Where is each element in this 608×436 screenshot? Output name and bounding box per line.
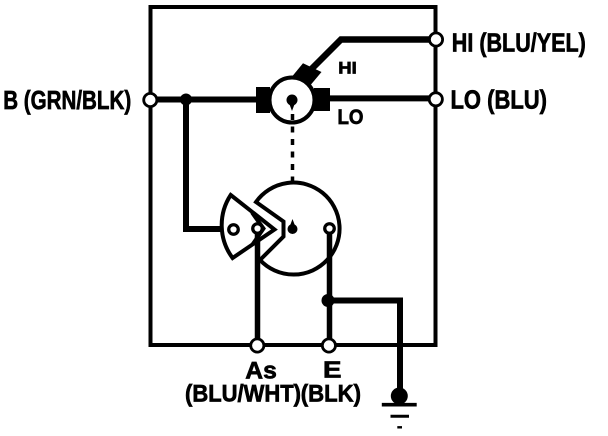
wiper arm wedge	[222, 195, 275, 258]
terminal As	[251, 339, 264, 352]
dashed shaft link line	[291, 114, 295, 222]
motor M1 body	[270, 78, 315, 123]
park switch plate (pac-man circle)	[256, 183, 340, 275]
junction dot on B wire	[180, 94, 192, 106]
svg-text:LO: LO	[338, 105, 364, 129]
motor M1 right brush	[314, 88, 330, 111]
svg-text:E: E	[323, 357, 342, 383]
component box outline	[151, 7, 436, 345]
wire junction to ground	[328, 301, 400, 391]
terminal B	[144, 93, 157, 106]
wire LO motor brush to LO terminal	[328, 95, 436, 101]
park switch center dot	[288, 224, 298, 234]
contact c2 (As)	[253, 224, 263, 234]
terminal LO	[429, 93, 442, 106]
wiper arm inner chevron	[252, 213, 264, 245]
svg-text:B (GRN/BLK): B (GRN/BLK)	[3, 85, 131, 115]
junction dot on E/ground wire	[322, 294, 335, 307]
terminal HI	[429, 33, 442, 46]
ground symbol	[391, 388, 408, 405]
svg-text:(BLU/WHT): (BLU/WHT)	[185, 380, 301, 407]
motor M1 shaft dot	[287, 95, 298, 106]
motor M1 left brush	[256, 87, 270, 113]
wire E contact down to E terminal	[327, 232, 333, 339]
wire As contact down to As terminal	[255, 232, 261, 339]
contact c1	[229, 225, 239, 235]
svg-text:HI: HI	[338, 59, 357, 77]
wire HI brush to HI terminal	[301, 40, 436, 81]
svg-text:LO (BLU): LO (BLU)	[451, 84, 548, 114]
terminal E	[322, 339, 335, 352]
wire junction to wiper arm	[186, 100, 224, 230]
motor M1 HI brush (angled)	[293, 63, 322, 84]
contact c3 (E)	[325, 224, 335, 234]
wire B terminal to motor left brush	[151, 97, 259, 103]
svg-text:(BLK): (BLK)	[301, 380, 361, 407]
svg-text:HI (BLU/YEL): HI (BLU/YEL)	[452, 27, 586, 57]
